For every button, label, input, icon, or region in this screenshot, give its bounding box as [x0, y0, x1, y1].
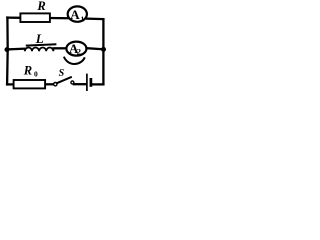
- resistor R0 box: [14, 80, 45, 88]
- wire left edge: [6, 18, 9, 85]
- svg-text:L: L: [35, 31, 44, 46]
- node right junction dot: [101, 47, 106, 52]
- wire A2 to right edge: [86, 48, 103, 49]
- wire middle left from dot to inductor: [7, 48, 24, 51]
- node left junction dot: [5, 47, 10, 52]
- battery long plate: [86, 74, 88, 91]
- svg-text:0: 0: [34, 70, 38, 79]
- wire battery to bottom right corner: [92, 83, 103, 85]
- battery short plate: [90, 78, 93, 87]
- resistor R box: [20, 13, 50, 22]
- wire top left: [7, 16, 20, 18]
- inductor L coil: [25, 48, 54, 52]
- svg-text:R: R: [36, 0, 45, 13]
- wire top between R and A1: [50, 17, 68, 20]
- ammeter A1: [68, 6, 87, 23]
- wire top right to corner: [87, 17, 104, 20]
- wire switch to battery: [74, 83, 86, 85]
- svg-text:A: A: [70, 7, 80, 22]
- arc below A2: [64, 57, 85, 64]
- wire bottom left corner to R0: [7, 83, 14, 85]
- svg-text:S: S: [59, 68, 65, 79]
- switch S contact right: [71, 81, 74, 84]
- svg-text:2: 2: [77, 47, 81, 57]
- switch S contact left: [54, 83, 57, 86]
- switch S lever: [57, 77, 72, 83]
- ammeter A2: [66, 41, 86, 56]
- inductor L core bar: [26, 44, 57, 45]
- wire right edge: [102, 19, 104, 84]
- wire inductor to A2: [54, 47, 67, 49]
- wire R0 to switch: [45, 83, 54, 85]
- svg-text:R: R: [23, 63, 32, 77]
- svg-text:1: 1: [81, 14, 85, 23]
